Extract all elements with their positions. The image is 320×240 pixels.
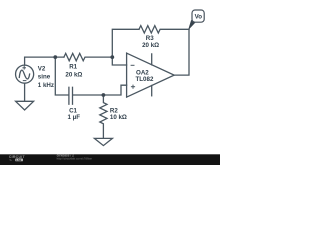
svg-text:R3: R3 [146,35,154,42]
svg-text:R1: R1 [69,64,77,71]
svg-text:20 kΩ: 20 kΩ [142,42,159,49]
svg-text:TL082: TL082 [136,76,154,83]
svg-text:V2: V2 [38,66,46,73]
svg-text:20 kΩ: 20 kΩ [65,71,82,78]
svg-text:10 kΩ: 10 kΩ [110,114,127,121]
svg-text:1 µF: 1 µF [68,114,81,121]
svg-text:∿: ∿ [9,158,12,162]
svg-text:1 kHz: 1 kHz [38,82,54,89]
svg-text:sine: sine [38,73,51,80]
svg-text:Vo: Vo [195,14,203,21]
svg-text:LAB: LAB [16,158,21,162]
svg-text:http://circuitlab.com/c7t8bar: http://circuitlab.com/c7t8bar [57,157,92,161]
